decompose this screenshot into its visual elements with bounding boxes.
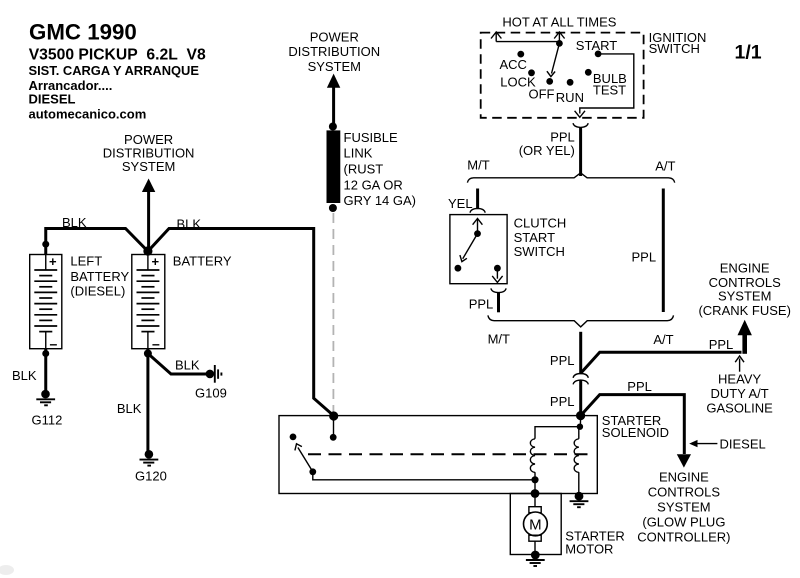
svg-text:SYSTEM: SYSTEM: [657, 500, 710, 515]
svg-text:–: –: [50, 336, 58, 352]
svg-text:+: +: [152, 254, 160, 269]
svg-text:M/T: M/T: [467, 158, 489, 173]
svg-text:BLK: BLK: [117, 401, 142, 416]
svg-text:G109: G109: [195, 386, 227, 401]
svg-text:A/T: A/T: [653, 332, 673, 347]
svg-text:automecanico.com: automecanico.com: [29, 106, 147, 121]
svg-text:BLK: BLK: [62, 215, 87, 230]
svg-text:(CRANK FUSE): (CRANK FUSE): [698, 303, 790, 318]
svg-text:(GLOW PLUG: (GLOW PLUG: [642, 515, 725, 530]
svg-text:DIESEL: DIESEL: [29, 92, 76, 107]
svg-text:LEFT: LEFT: [70, 254, 102, 269]
svg-text:+: +: [49, 254, 57, 269]
svg-text:12 GA OR: 12 GA OR: [344, 177, 403, 192]
svg-text:PPL: PPL: [550, 353, 575, 368]
svg-text:G112: G112: [32, 413, 63, 428]
svg-text:FUSIBLE: FUSIBLE: [344, 130, 399, 145]
svg-text:GMC 1990: GMC 1990: [29, 20, 137, 45]
svg-text:GASOLINE: GASOLINE: [706, 401, 773, 416]
svg-text:SWITCH: SWITCH: [649, 41, 700, 56]
svg-text:SYSTEM: SYSTEM: [718, 289, 771, 304]
svg-text:PPL: PPL: [469, 297, 494, 312]
svg-text:CLUTCH: CLUTCH: [514, 215, 567, 230]
svg-text:SYSTEM: SYSTEM: [308, 59, 361, 74]
svg-text:BLK: BLK: [177, 216, 202, 231]
svg-text:(RUST: (RUST: [344, 162, 384, 177]
svg-text:V3500 PICKUP 6.2L V8: V3500 PICKUP 6.2L V8: [29, 47, 206, 64]
svg-text:A/T: A/T: [655, 159, 675, 174]
svg-text:ENGINE: ENGINE: [659, 470, 709, 485]
svg-text:DISTRIBUTION: DISTRIBUTION: [288, 44, 380, 59]
svg-text:START: START: [514, 230, 555, 245]
svg-text:CONTROLLER): CONTROLLER): [637, 530, 730, 545]
svg-text:GRY 14 GA): GRY 14 GA): [344, 193, 417, 208]
svg-text:G120: G120: [135, 469, 167, 484]
svg-text:SIST. CARGA Y ARRANQUE: SIST. CARGA Y ARRANQUE: [29, 63, 200, 78]
svg-text:DUTY A/T: DUTY A/T: [710, 386, 768, 401]
svg-text:ENGINE: ENGINE: [720, 260, 770, 275]
svg-text:(OR YEL): (OR YEL): [519, 143, 575, 158]
svg-text:BLK: BLK: [175, 358, 200, 373]
svg-text:PPL: PPL: [627, 379, 652, 394]
svg-text:1/1: 1/1: [735, 42, 762, 64]
svg-text:–: –: [152, 336, 160, 352]
svg-text:PPL: PPL: [632, 250, 657, 265]
svg-text:HOT AT ALL TIMES: HOT AT ALL TIMES: [502, 14, 616, 29]
svg-text:PPL: PPL: [550, 394, 575, 409]
svg-text:YEL: YEL: [448, 196, 473, 211]
svg-text:SYSTEM: SYSTEM: [122, 159, 175, 174]
svg-text:POWER: POWER: [310, 30, 359, 45]
svg-text:PPL: PPL: [709, 337, 734, 352]
svg-text:LINK: LINK: [344, 146, 373, 161]
svg-text:RUN: RUN: [556, 90, 584, 105]
svg-text:M/T: M/T: [488, 332, 510, 347]
svg-text:TEST: TEST: [593, 82, 626, 97]
svg-text:OFF: OFF: [529, 87, 555, 102]
svg-text:SOLENOID: SOLENOID: [602, 425, 669, 440]
svg-text:BATTERY: BATTERY: [70, 269, 129, 284]
svg-text:BLK: BLK: [12, 368, 37, 383]
svg-text:ACC: ACC: [500, 57, 527, 72]
svg-text:SWITCH: SWITCH: [514, 244, 565, 259]
svg-text:START: START: [576, 38, 617, 53]
svg-text:DIESEL: DIESEL: [720, 436, 766, 451]
svg-text:HEAVY: HEAVY: [718, 372, 761, 387]
svg-text:MOTOR: MOTOR: [565, 542, 613, 557]
svg-text:(DIESEL): (DIESEL): [70, 283, 125, 298]
svg-text:BATTERY: BATTERY: [173, 253, 232, 268]
svg-text:M: M: [529, 516, 542, 533]
svg-text:CONTROLS: CONTROLS: [648, 485, 721, 500]
